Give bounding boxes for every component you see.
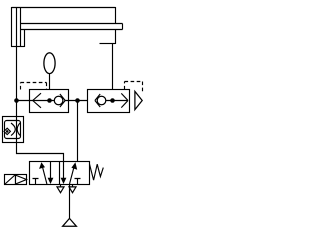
cylinder bottom step bbox=[24, 30, 26, 48]
left valve flow arrow pointing left bbox=[33, 93, 41, 108]
quick exhaust valve body (left) bbox=[30, 90, 69, 113]
exhaust triangle port 3 bbox=[69, 187, 76, 193]
node on left supply wire bbox=[14, 98, 19, 103]
right valve check ball bbox=[97, 96, 106, 105]
cylinder bottom-right edge bbox=[100, 43, 116, 45]
node between valves bbox=[75, 98, 80, 103]
cylinder rod end cap bbox=[122, 24, 124, 30]
return spring bbox=[90, 164, 104, 180]
cylinder piston line 1 bbox=[16, 7, 18, 47]
5/2 valve chamber divider bbox=[59, 162, 61, 185]
silencer ellipse bbox=[44, 53, 55, 74]
cylinder right wall lower bbox=[115, 30, 117, 45]
throttle unit outer box bbox=[3, 117, 24, 143]
throttle unit diamond bbox=[4, 128, 10, 134]
chamber2 blocked port T bbox=[75, 179, 81, 185]
wire mid line into left valve bbox=[17, 100, 55, 102]
5/2-way valve body bbox=[30, 162, 90, 185]
cylinder left end wall bbox=[11, 7, 13, 47]
dashed frame left valve bbox=[21, 83, 47, 90]
wire from cylinder left port down bbox=[16, 47, 18, 117]
exhaust triangle port 5 bbox=[57, 187, 64, 193]
solenoid coil bbox=[5, 175, 27, 185]
chamber1 down arrow bbox=[48, 162, 54, 185]
right valve check seat bbox=[95, 94, 100, 107]
right valve exhaust triangle bbox=[135, 91, 142, 109]
wire from throttle unit to 5/2 valve port 4 bbox=[17, 143, 64, 162]
wire mid line between valves bbox=[64, 100, 95, 102]
exhaust stub port 5 bbox=[60, 185, 62, 187]
quick exhaust valve body (right) bbox=[88, 90, 130, 113]
wire through throttle unit bbox=[16, 117, 18, 143]
node at left valve centre bbox=[47, 98, 52, 103]
chamber1 diagonal arrow up bbox=[39, 162, 47, 184]
cylinder right wall upper bbox=[115, 7, 117, 24]
throttle venturi arcs bbox=[11, 123, 20, 136]
throttle unit inner box bbox=[5, 121, 21, 139]
left valve check ball bbox=[54, 96, 63, 105]
right valve flow arrow pointing right bbox=[121, 93, 128, 107]
dashed frame right valve bbox=[125, 82, 143, 93]
node at right valve centre bbox=[110, 98, 115, 103]
cylinder rod top line bbox=[21, 23, 123, 25]
wire inside right valve to arrow bbox=[106, 100, 128, 102]
throttle unit diamond dot bbox=[6, 130, 9, 133]
cylinder bottom-left edge bbox=[11, 46, 25, 48]
cylinder rod bottom line bbox=[21, 29, 123, 31]
exhaust stub port 3 bbox=[72, 185, 74, 187]
compressed air source triangle bbox=[63, 218, 77, 226]
chamber2 diagonal arrow up bbox=[70, 162, 78, 184]
chamber2 down arrow bbox=[61, 162, 67, 185]
left valve check seat bbox=[60, 94, 65, 107]
wire from cylinder right port down bbox=[112, 44, 114, 101]
cylinder 1A top edge bbox=[12, 7, 116, 9]
chamber1 blocked port T bbox=[33, 179, 39, 185]
cylinder piston line 2 bbox=[20, 7, 22, 47]
wire silencer stem bbox=[49, 74, 51, 101]
wire from mid node down to 5/2 valve port 2 bbox=[77, 101, 79, 162]
wire supply line port 1 bbox=[69, 185, 71, 219]
